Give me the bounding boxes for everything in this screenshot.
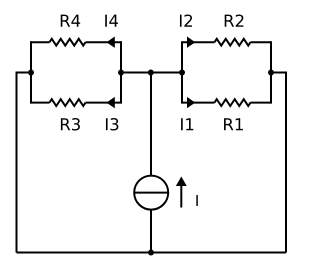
junction node: right pair left [179,70,185,76]
label R3 [61,118,80,130]
label I4 [105,15,118,27]
junction node: left pair right [118,70,124,76]
wire: left pair right vertical [120,41,122,103]
current arrow I2 [187,37,195,48]
wire: bottom horizontal [17,252,287,254]
current arrow I1 [187,97,195,108]
wire: right outer vertical with connector to node B [271,73,286,253]
label I2 [180,14,192,26]
label I1 [181,118,193,130]
wire: R1 branch right lead [251,102,272,104]
label I3 [106,118,118,130]
current arrow I4 [107,37,115,48]
label I [196,195,197,206]
resistor R3 [50,99,86,106]
wire: right pair left vertical [181,41,183,103]
junction node B (right) [268,70,274,76]
wire: R3 branch right lead [86,102,122,104]
wire: current source bottom lead [150,210,152,253]
current source I arrow shaft [180,184,182,208]
label R4 [61,15,80,27]
wire: R2 branch right lead [251,41,272,43]
current source I body [134,176,168,210]
wire: R4 branch right lead [86,41,122,43]
wire: left outer vertical with connector to node A [17,73,32,253]
wire: right pair right vertical [270,41,272,103]
current source I arrow head [176,177,187,187]
resistor R4 [50,39,86,46]
wire: R3 branch left lead [31,102,50,104]
resistor R1 [215,99,251,106]
junction node A (left) [28,70,34,76]
wire: R4 branch left lead [31,41,50,43]
wire: middle horizontal node [121,72,182,74]
label R1 [224,118,243,130]
label R2 [225,14,244,26]
resistor R2 [215,39,251,46]
current source I chord [134,192,168,194]
wire: left pair left vertical [30,41,32,103]
current arrow I3 [107,97,115,108]
junction node: source tap top [148,70,154,76]
wire: current source top lead [150,73,152,177]
junction node: source tap bottom [148,250,154,256]
wire: R1 branch left lead [182,102,215,104]
wire: R2 branch left lead [182,41,215,43]
